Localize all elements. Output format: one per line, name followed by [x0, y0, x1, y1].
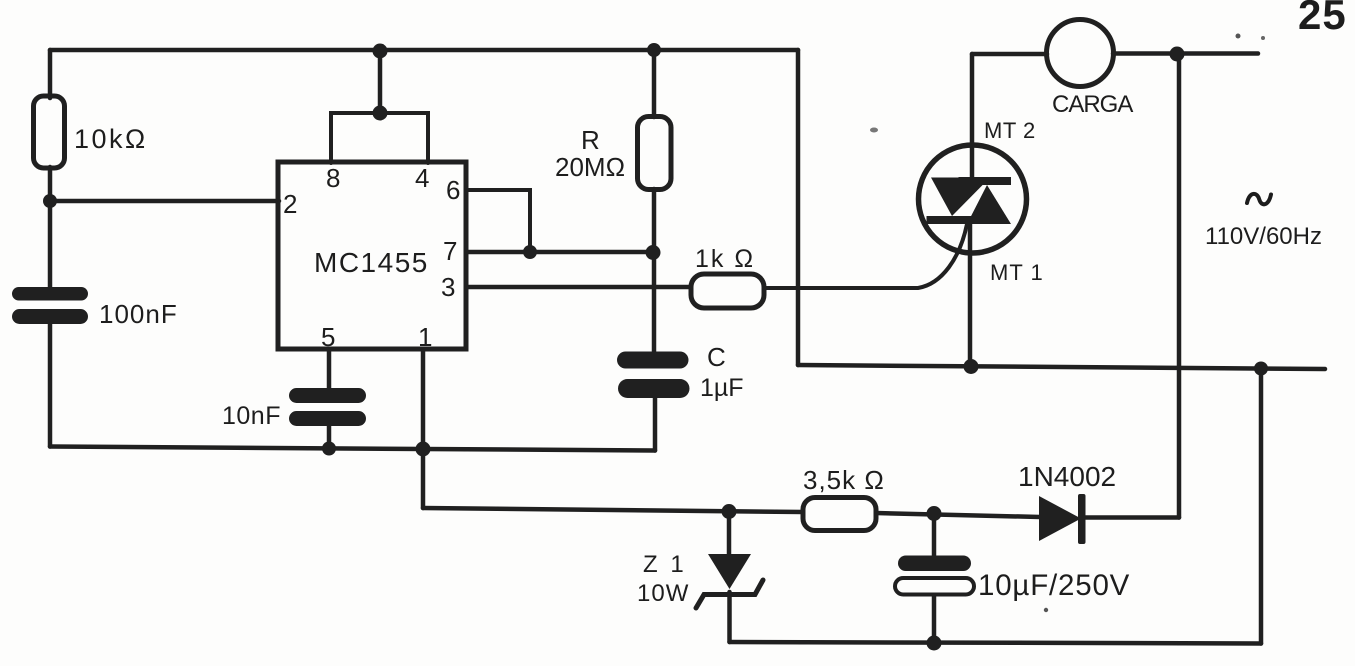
node 10µF junction: [927, 506, 942, 521]
node pin6/pin7 junction: [523, 245, 537, 259]
svg-text:CARGA: CARGA: [1052, 91, 1133, 118]
wire pin 6: [466, 190, 530, 252]
wire R bottom down to C: [652, 189, 657, 352]
wire right side vertical of AC loop: [1259, 369, 1264, 644]
capacitor C 1µF: [617, 352, 690, 399]
speck: [1261, 36, 1265, 40]
wire gate from 1k to triac: [764, 224, 967, 288]
wire R1 bottom to 100nF: [48, 167, 53, 289]
speck: [1044, 608, 1048, 612]
svg-text:1k Ω: 1k Ω: [695, 245, 755, 273]
svg-text:2: 2: [283, 189, 297, 219]
resistor 1kΩ: [691, 274, 764, 308]
svg-text:10nF: 10nF: [222, 402, 281, 430]
wire 10nF to rail: [327, 426, 332, 449]
speck: [1236, 34, 1241, 39]
wire diode to right vertical: [1085, 515, 1179, 520]
svg-text:20MΩ: 20MΩ: [555, 152, 625, 182]
zener Z1: [727, 511, 732, 555]
op-amp U1 MC1455 box: [278, 162, 466, 349]
wire 3.5k to diode: [876, 513, 1040, 517]
wire Z1 to bottom rail: [727, 592, 732, 642]
node pin7/R junction: [646, 245, 661, 260]
wire R top lead from rail: [652, 50, 657, 117]
svg-text:7: 7: [443, 236, 457, 266]
node 10nF at rail: [322, 442, 336, 456]
wire top supply rail: [50, 48, 798, 53]
svg-text:R: R: [581, 125, 600, 155]
wire left vertical from top rail to R1: [48, 50, 53, 98]
wire 10µF bottom lead: [932, 595, 937, 643]
wire bracket to top rail: [378, 51, 383, 113]
svg-text:10µF/250V: 10µF/250V: [978, 569, 1130, 602]
svg-text:MC1455: MC1455: [314, 247, 429, 278]
wire pin 1 vertical: [421, 349, 426, 508]
wire pin 5 lead: [327, 349, 332, 389]
svg-text:Z 1: Z 1: [643, 551, 687, 578]
diode 1N4002: [1039, 494, 1086, 544]
node 10µF at bottom rail: [927, 636, 942, 651]
svg-text:C: C: [707, 342, 726, 372]
capacitor 10µF/250V: [898, 556, 971, 572]
speck: [870, 128, 878, 133]
svg-text:100nF: 100nF: [99, 299, 178, 329]
wire 10µF top lead: [932, 513, 937, 556]
node right rail junction: [1170, 47, 1185, 62]
svg-text:10W: 10W: [637, 580, 689, 607]
wire top right rail to CARGA: [972, 52, 1047, 57]
svg-text:1N4002: 1N4002: [1018, 461, 1116, 492]
svg-text:MT 1: MT 1: [990, 260, 1044, 285]
node mid rail right: [1254, 362, 1268, 376]
node top rail at x380: [373, 44, 388, 59]
resistor R 20MΩ: [638, 117, 672, 190]
svg-text:4: 4: [415, 163, 429, 193]
svg-text:6: 6: [446, 175, 460, 205]
wire triac MT1 lead: [968, 223, 973, 366]
node R at top rail: [647, 43, 661, 57]
svg-text:MT 2: MT 2: [984, 118, 1036, 143]
svg-text:3: 3: [441, 272, 455, 302]
svg-text:1µF: 1µF: [700, 374, 744, 402]
svg-text:8: 8: [326, 163, 340, 193]
wire pin 7: [466, 250, 654, 255]
svg-text:3,5k Ω: 3,5k Ω: [803, 465, 885, 495]
wire pins 8-4 top bracket: [331, 113, 428, 163]
node bracket center: [373, 106, 388, 121]
wire bottom supply rail: [730, 642, 1262, 644]
wire right vertical to top rail: [1177, 54, 1182, 518]
svg-text:5: 5: [321, 322, 335, 352]
wire triac MT2 lead: [970, 54, 975, 179]
wire 100nF to bottom rail: [48, 324, 53, 447]
wire pin 3: [466, 285, 691, 290]
node triac MT1 at mid rail: [964, 359, 979, 374]
node Z1 junction: [722, 504, 737, 519]
wire CARGA to right end: [1113, 51, 1258, 56]
wire bottom rail of timer section: [50, 447, 655, 451]
lamp CARGA: [1047, 20, 1114, 87]
resistor 10kΩ: [34, 96, 65, 168]
triac Q1 symbol: [927, 177, 1012, 224]
triac Q1 circle: [919, 145, 1027, 253]
resistor 3,5kΩ: [803, 498, 876, 531]
svg-text:10kΩ: 10kΩ: [74, 124, 148, 154]
capacitor 10nF: [289, 388, 366, 426]
wire mid AC rail: [798, 365, 1325, 369]
node junction pin2/R1/C: [43, 194, 57, 208]
wire lower horizontal to 3.5k: [423, 508, 803, 512]
svg-text:25: 25: [1298, 0, 1347, 38]
capacitor 100nF: [12, 287, 88, 324]
svg-text:110V/60Hz: 110V/60Hz: [1205, 223, 1322, 250]
node pin1 at rail: [416, 442, 431, 457]
wire left vertical of AC loop: [796, 50, 801, 365]
symbol AC tilde: [1247, 194, 1271, 204]
wire C bottom to rail: [653, 398, 658, 451]
svg-text:1: 1: [418, 322, 432, 352]
wire pin 2: [50, 199, 279, 204]
